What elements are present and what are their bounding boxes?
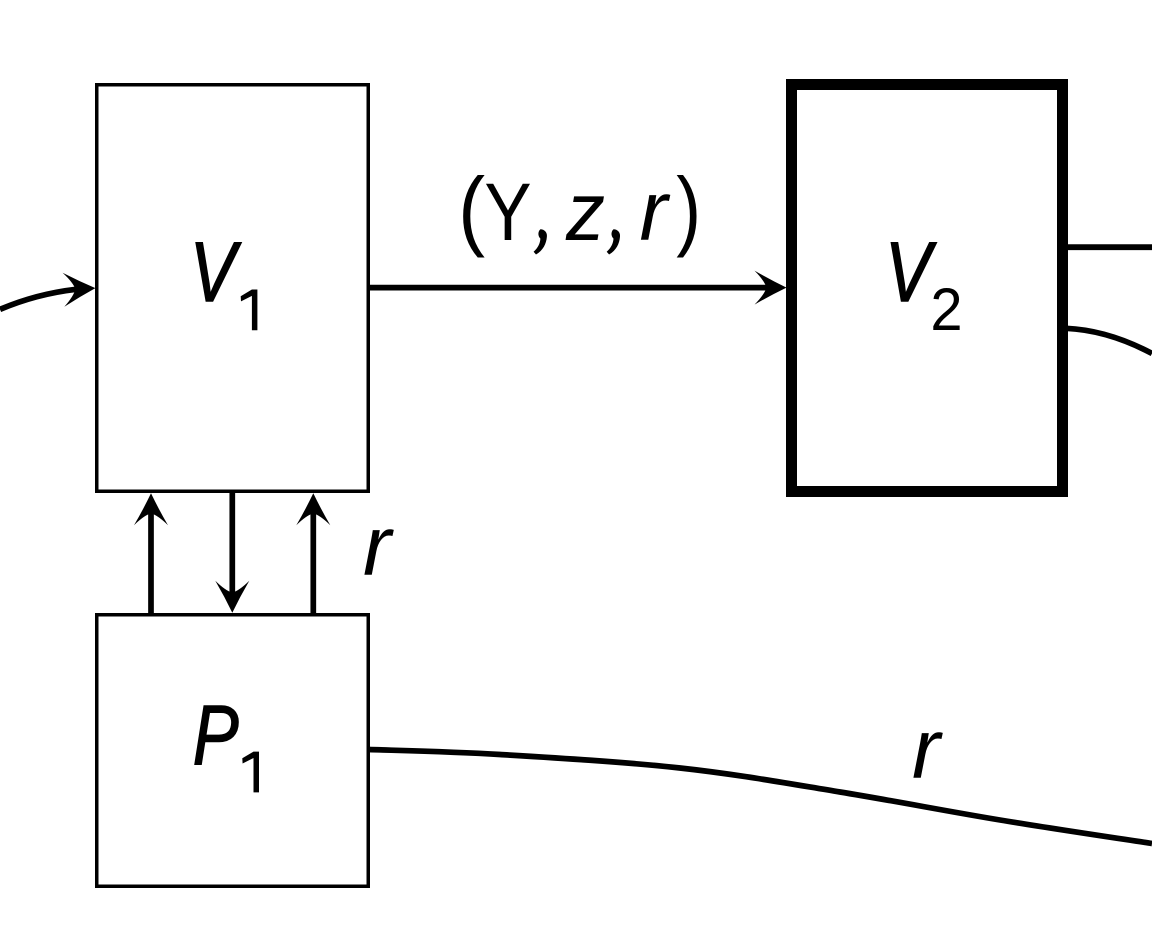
node V1 label [190,226,242,320]
wire up arrow left P1 to V1 [148,508,154,613]
node P1 label [193,689,239,783]
svg-text:Y: Y [484,167,531,258]
svg-text:): ) [676,160,701,258]
node V1 box [97,85,369,492]
wire incoming arrow into V1 [0,289,76,309]
svg-text:r: r [912,702,943,796]
wire down arrow V1 to P1 [229,493,235,598]
node P1 box [97,615,369,887]
svg-text:P: P [193,689,239,783]
wire P1 long curve [369,750,1152,844]
svg-text:r: r [640,164,671,258]
label (Y, z, r) [458,159,701,259]
wire V2 right horizontal line [1066,244,1152,250]
svg-text:r: r [363,499,394,593]
node V2 label [885,226,937,320]
wire arrow V1 to V2 [369,285,772,291]
wire V2 right curve [1066,328,1152,353]
svg-text:2: 2 [930,277,962,343]
svg-text:z: z [565,166,605,259]
wire up arrow right P1 to V1 [310,508,316,613]
svg-text:V: V [190,226,242,320]
svg-text:(: ( [458,159,485,258]
node V2 box (thick) [792,85,1063,492]
